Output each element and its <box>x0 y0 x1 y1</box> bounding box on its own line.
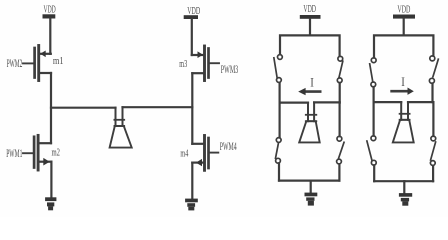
wire ground stem c4 <box>403 181 405 193</box>
svg-text:m4: m4 <box>180 148 188 160</box>
wire VDD2 to m3 drain <box>191 19 193 55</box>
svg-text:VDD: VDD <box>397 3 410 15</box>
wire VDD3 stem <box>309 19 311 36</box>
transistor m1 (PMOS high-side left) <box>23 46 51 81</box>
svg-text:m3: m3 <box>179 58 187 70</box>
node A wire : mid rail left <box>51 107 116 109</box>
transistor m3 (PMOS high-side right) <box>192 46 219 81</box>
VDD supply symbol V4 <box>393 3 415 18</box>
svg-text:m1: m1 <box>53 55 64 67</box>
wire bottom rail c3 <box>279 180 339 182</box>
wire m4 source to ground <box>191 163 193 199</box>
transistor m4 (NMOS low-side right) <box>192 136 218 171</box>
wire VDD4 stem <box>403 19 405 36</box>
svg-text:PWM3: PWM3 <box>221 64 239 76</box>
wire mid rail c4 right <box>408 101 433 103</box>
svg-text:PWM2: PWM2 <box>7 58 23 70</box>
transducer LS3 (buzzer c4) <box>393 102 414 142</box>
svg-text:PWM1: PWM1 <box>6 148 22 160</box>
svg-text:VDD: VDD <box>303 3 316 15</box>
switch S3 (lower left, open) <box>276 103 282 181</box>
ground G1 <box>45 197 56 210</box>
mid rail right <box>123 106 193 108</box>
transducer LS1 (buzzer) <box>110 107 132 147</box>
current arrow c4 (pointing right) <box>392 88 414 95</box>
wire mid rail c4 left <box>374 101 401 103</box>
VDD supply symbol V2 <box>184 5 201 19</box>
wire m2 source to ground <box>50 162 52 198</box>
wire mid rail c3 right <box>314 101 340 103</box>
switch S4 (lower right, open) <box>337 102 344 180</box>
svg-text:VDD: VDD <box>44 3 56 15</box>
wire bottom rail c4 <box>374 180 433 182</box>
wire ground stem c3 <box>310 181 312 193</box>
switch S1 (upper left, open) <box>274 55 282 103</box>
ground G2 <box>185 199 198 211</box>
transistor m2 (NMOS low-side left) <box>23 135 51 170</box>
switch S6 (upper right, open) <box>429 56 438 102</box>
svg-text:m2: m2 <box>52 146 61 158</box>
transducer LS2 (buzzer c3) <box>299 102 320 142</box>
svg-text:I: I <box>310 75 314 89</box>
switch S2 (upper right, open) <box>337 56 342 102</box>
wire mid rail c3 left <box>280 101 308 103</box>
VDD supply symbol V3 <box>300 3 321 19</box>
svg-text:I: I <box>401 75 405 89</box>
wire m3 source to node B to m4 drain <box>191 73 193 144</box>
ground G3 <box>305 193 318 206</box>
current arrow c3 (pointing left) <box>298 88 320 95</box>
switch S8 (lower right, open) <box>430 102 435 181</box>
wire top rail c4 <box>374 35 433 57</box>
ground G4 <box>399 193 412 206</box>
svg-text:PWM4: PWM4 <box>220 141 237 153</box>
wire top rail c3 <box>280 35 340 56</box>
switch S5 (upper left, open) <box>370 58 376 102</box>
VDD supply symbol V1 <box>43 3 56 18</box>
wire m1 source to node A to m2 drain <box>50 73 52 143</box>
wire VDD1 to m1 drain <box>49 19 51 54</box>
switch S7 (lower left, open) <box>367 102 376 181</box>
svg-text:VDD: VDD <box>187 5 200 17</box>
